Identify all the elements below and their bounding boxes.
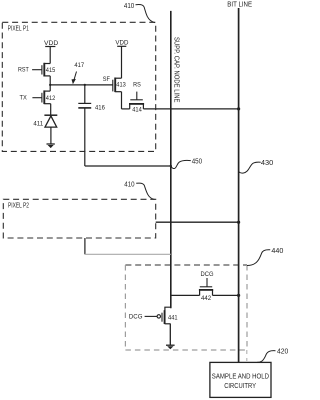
svg-text:410: 410: [124, 3, 134, 10]
svg-text:CIRCUITRY: CIRCUITRY: [224, 383, 256, 390]
svg-text:SUPP. CAP. NODE LINE: SUPP. CAP. NODE LINE: [173, 37, 180, 103]
svg-text:VDD: VDD: [115, 39, 128, 46]
svg-text:417: 417: [74, 62, 84, 69]
svg-text:DCG: DCG: [129, 313, 143, 320]
svg-text:442: 442: [201, 295, 211, 302]
svg-text:411: 411: [33, 120, 43, 127]
svg-text:SAMPLE AND HOLD: SAMPLE AND HOLD: [212, 373, 269, 380]
svg-text:PIXEL P2: PIXEL P2: [8, 203, 29, 210]
svg-text:440: 440: [271, 248, 283, 255]
svg-text:413: 413: [116, 82, 126, 89]
svg-text:414: 414: [132, 106, 142, 113]
svg-text:430: 430: [261, 160, 274, 167]
svg-text:416: 416: [95, 105, 105, 112]
svg-text:DCG: DCG: [201, 271, 214, 278]
svg-text:441: 441: [168, 314, 178, 321]
svg-text:420: 420: [277, 349, 288, 356]
svg-text:RS: RS: [133, 82, 141, 89]
svg-text:TX: TX: [20, 95, 28, 102]
svg-text:415: 415: [46, 67, 56, 74]
svg-text:412: 412: [46, 95, 56, 102]
svg-text:VDD: VDD: [44, 40, 58, 47]
svg-text:PIXEL P1: PIXEL P1: [8, 26, 29, 33]
svg-text:410: 410: [124, 181, 134, 188]
svg-text:SF: SF: [103, 76, 110, 83]
svg-text:BIT LINE: BIT LINE: [227, 1, 252, 8]
svg-text:RST: RST: [18, 67, 29, 74]
svg-text:450: 450: [192, 159, 202, 166]
